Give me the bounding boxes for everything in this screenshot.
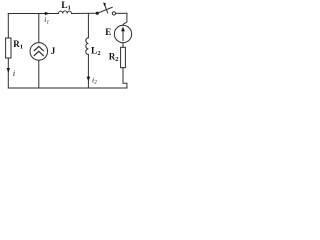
wire top-middle segment (72, 12, 98, 14)
current source J (30, 43, 56, 61)
wire J branch bottom (38, 60, 40, 88)
wire right-side upper with jog (123, 13, 127, 25)
inductor L2 (86, 38, 101, 57)
switch S (96, 2, 116, 15)
wire left-side upper (7, 14, 9, 39)
wire left-side lower (7, 58, 9, 88)
wire top-left segment (8, 13, 58, 15)
wire right-side lower with jog (123, 68, 127, 88)
svg-text:i: i (13, 69, 15, 78)
current arrow i1 (44, 12, 49, 26)
source E (105, 25, 131, 42)
resistor R2 (109, 47, 126, 67)
wire E to R2 (122, 43, 124, 48)
wire top-right segment (116, 12, 127, 14)
resistor R1 (6, 38, 23, 58)
wire L2 branch top (87, 14, 89, 38)
wire L2 branch bottom (87, 55, 89, 89)
inductor L1 (59, 1, 72, 13)
current arrow i2 (87, 75, 97, 85)
svg-text:E: E (105, 27, 111, 37)
current arrow i (7, 68, 16, 78)
wire bottom (8, 87, 127, 89)
svg-text:J: J (51, 46, 56, 56)
wire J branch top (38, 14, 40, 43)
